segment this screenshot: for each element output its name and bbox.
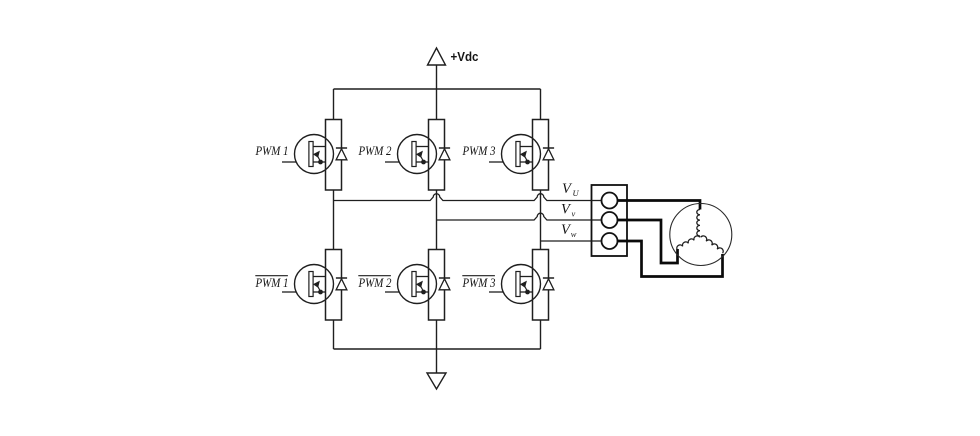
- wire +Vdc to top rail: [436, 65, 438, 120]
- wire motor phase U (J1 pin1 to motor top): [618, 201, 701, 210]
- transistor Q2 (MOSFET, high side phase 2): [398, 120, 445, 191]
- transistor Q4 (MOSFET, low side phase 1): [295, 250, 342, 321]
- wire phase leg V vertical (Q2 source to Q5 drain): [436, 190, 438, 249]
- node label Vu: [562, 181, 580, 198]
- body diode D3: [543, 148, 554, 160]
- node label Vw: [561, 222, 577, 239]
- wire J1 pin3 stub: [592, 240, 602, 242]
- wire gate of Q1: [282, 161, 296, 163]
- body diode D4: [336, 278, 347, 290]
- svg-text:U: U: [573, 188, 580, 198]
- svg-text:V: V: [562, 181, 573, 197]
- body diode D6: [543, 278, 554, 290]
- svg-text:PWM 3: PWM 3: [462, 276, 496, 290]
- wire Q5 source drop: [436, 320, 438, 349]
- transistor Q5 (MOSFET, low side phase 2): [398, 250, 445, 321]
- wire J1 pin2 stub: [592, 219, 602, 221]
- node label Vv: [561, 202, 576, 219]
- connector J1 terminal block: [592, 185, 628, 256]
- wire gate of Q2: [385, 161, 399, 163]
- body diode D5: [439, 278, 450, 290]
- svg-text:PWM 2: PWM 2: [358, 276, 392, 290]
- svg-text:PWM 1: PWM 1: [255, 276, 289, 290]
- wire output Vv with crossover hop: [437, 213, 592, 220]
- wire Q6 source drop: [540, 320, 542, 349]
- wire gate of Q5: [385, 291, 399, 293]
- wire ground stub: [436, 349, 438, 373]
- body diode D1: [336, 148, 347, 160]
- svg-text:w: w: [571, 229, 577, 239]
- wire motor phase W (J1 pin3 to motor lower-right): [618, 241, 723, 277]
- ground symbol: [427, 373, 446, 389]
- wire J1 pin1 stub: [592, 200, 602, 202]
- wire rail drop to Q1 drain: [333, 89, 335, 120]
- motor M1 body circle: [670, 204, 732, 266]
- transistor Q3 (MOSFET, high side phase 3): [502, 120, 549, 191]
- motor winding U (top coil): [697, 210, 700, 237]
- wire bottom DC rail: [334, 348, 541, 350]
- svg-text:v: v: [572, 209, 576, 219]
- wire output Vu with crossover hops: [334, 194, 592, 201]
- svg-text:+Vdc: +Vdc: [451, 50, 479, 64]
- wire output Vw: [541, 240, 592, 242]
- wire Q4 source drop: [333, 320, 335, 349]
- transistor Q6 (MOSFET, low side phase 3): [502, 250, 549, 321]
- svg-text:PWM 1: PWM 1: [255, 144, 289, 158]
- wire phase leg W vertical (Q3 source to Q6 drain): [540, 190, 542, 249]
- wire gate of Q3: [489, 161, 503, 163]
- body diode D2: [439, 148, 450, 160]
- wire top DC rail: [334, 88, 541, 90]
- motor winding V (lower-left coil): [677, 236, 700, 249]
- motor winding W (lower-right coil): [701, 236, 724, 253]
- label PWM-bar 3 (inverted gate signal): [462, 276, 496, 290]
- svg-text:V: V: [561, 202, 572, 218]
- svg-text:PWM 2: PWM 2: [358, 144, 392, 158]
- wire motor phase V (J1 pin2 to motor lower-left): [618, 220, 678, 263]
- wire phase leg U vertical (Q1 source to Q4 drain): [333, 190, 335, 249]
- wire rail drop to Q3 drain: [540, 89, 542, 120]
- wire gate of Q4: [282, 291, 296, 293]
- label PWM-bar 2 (inverted gate signal): [358, 276, 392, 290]
- svg-text:PWM 3: PWM 3: [462, 144, 496, 158]
- power symbol +Vdc: [428, 48, 479, 65]
- wire gate of Q6: [489, 291, 503, 293]
- label PWM-bar 1 (inverted gate signal): [255, 276, 289, 290]
- transistor Q1 (MOSFET, high side phase 1): [295, 120, 342, 191]
